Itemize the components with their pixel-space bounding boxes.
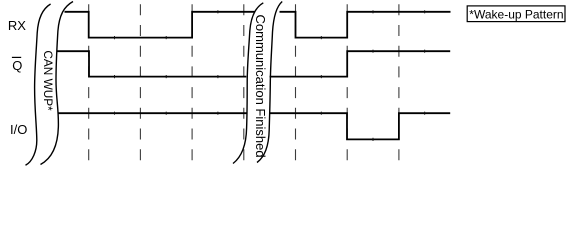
svg-text:Q: Q [12,58,22,73]
break curve pair 1 (CAN WUP) [26,2,74,166]
svg-text:*Wake-up Pattern: *Wake-up Pattern [469,7,563,21]
dashed gridlines [89,4,399,160]
waveform RX [65,12,451,38]
svg-text:RX: RX [8,18,26,33]
note box *Wake-up Pattern [467,6,565,22]
waveform Q-bar [57,51,450,76]
bit ticks on waveforms [115,10,425,141]
break curve pair 2 (Communication Finished) [233,2,282,164]
svg-text:CAN WUP*: CAN WUP* [41,50,55,111]
svg-text:I/O: I/O [10,122,27,137]
waveform I/O [58,113,450,139]
svg-text:Communication Finished: Communication Finished [253,15,268,158]
